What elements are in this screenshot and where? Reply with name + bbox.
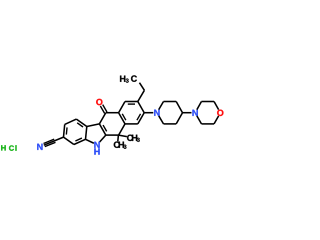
gem dimethyl bond to CH3 down [117, 135, 120, 141]
piperidine bond TR-C4 [176, 102, 182, 113]
middle ring bond C11a-C11 [99, 113, 105, 124]
methyl CH3 right label [127, 135, 133, 141]
pyrrole bond B1-C11a [87, 124, 100, 127]
nitrile triple bond outer lines [45, 142, 56, 146]
ethyl bond CH2-CH3 [139, 83, 144, 91]
left benzene bond top-TL [65, 119, 77, 124]
morpholine N label [192, 110, 197, 116]
nitrile bond C3 to N [44, 137, 64, 145]
left benzene double bond TL-C3 [64, 124, 65, 137]
bond ring-N piperidine [144, 112, 153, 114]
morpholine bond N-TL [197, 102, 202, 110]
piperidine bond C4-BR [176, 113, 182, 124]
bond piperidine C4 - morpholine N [183, 112, 192, 114]
morpholine bond BR-BL [201, 123, 214, 125]
piperidine bond TL-TR [164, 101, 177, 103]
pyrrole bond N5-B2 [86, 139, 94, 143]
pyrrole double bond C5a=C11a [99, 124, 105, 135]
methyl CH3 down label [114, 142, 120, 148]
morpholine bond TL-TR [201, 101, 214, 103]
left benzene double bond bottom-B2 [74, 139, 86, 144]
ethyl H3C label [120, 76, 125, 82]
pyrrole bond C5a-N5 [100, 135, 106, 142]
morpholine bond O-BR [214, 116, 219, 124]
gem dimethyl bond to CH3 right [119, 135, 127, 137]
middle ring bond C6a-C6 [119, 124, 125, 135]
left benzene double bond B1-top [76, 119, 86, 126]
morpholine bond BL-N [197, 116, 202, 124]
right benzene double bond R-BR [138, 113, 144, 124]
piperidine bond BL-N [159, 116, 164, 124]
piperidine N label [154, 110, 159, 116]
hydrochloride HCl label [1, 145, 5, 150]
right benzene double bond TL-TR [125, 101, 138, 103]
carbonyl O label [96, 99, 102, 105]
left benzene bond C3-bottom [64, 137, 74, 144]
right benzene bond TR-R [138, 102, 144, 113]
morpholine O label [217, 110, 223, 116]
middle ring bond C11-C10a [106, 112, 119, 114]
left benzene fused bond B2-B1 [86, 127, 87, 140]
fused aromatic bond C10a-C6a [119, 113, 125, 124]
morpholine bond TR-O [214, 102, 219, 110]
nitrile N label [37, 144, 42, 150]
middle ring bond C6-C5a [106, 134, 119, 136]
right benzene bond C10a-TL [119, 102, 125, 113]
piperidine bond N-TL [159, 102, 164, 110]
carbonyl C11=O double bond [103, 105, 107, 112]
right benzene bond BR-C6a [125, 123, 138, 125]
pyrrole NH label [94, 142, 99, 148]
ethyl bond ring-CH2 [138, 90, 145, 101]
piperidine bond BR-BL [164, 123, 177, 125]
